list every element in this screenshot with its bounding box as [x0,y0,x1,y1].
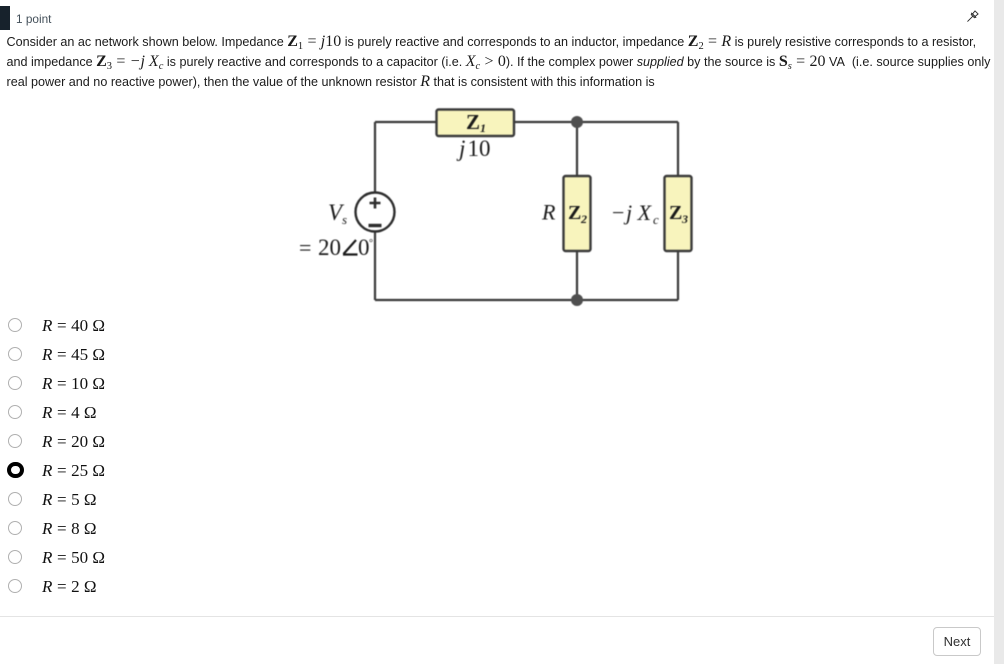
svg-text:Z: Z [568,202,581,224]
svg-text:R: R [541,200,556,225]
options [0,311,1,340]
svg-text:°: ° [369,238,373,249]
node bottom junction [571,294,583,306]
svg-text:Z: Z [669,202,682,224]
wire left vertical bottom segment [374,232,376,301]
wire bottom rail [375,299,678,301]
svg-text:3: 3 [681,212,688,226]
wire top rail right [514,121,678,123]
voltage source Vs circle with plus minus [356,193,395,232]
label Vs [328,200,347,227]
node top junction [571,116,583,128]
svg-text:2: 2 [580,212,587,226]
svg-text:10: 10 [468,136,491,161]
svg-text:20: 20 [318,235,341,260]
impedance Z2 box [564,176,591,251]
svg-text:−: − [612,200,624,225]
svg-text:=: = [299,235,311,260]
svg-text:j X: j X [623,200,653,225]
wire Z2 top [576,122,578,176]
wire right vertical to Z3 [677,122,679,176]
svg-text:s: s [342,212,347,227]
label j10 [456,136,491,161]
label = 20 angle 0 deg [299,235,373,260]
svg-text:0: 0 [358,235,370,260]
svg-text:c: c [653,212,659,227]
impedance Z1 box [437,110,515,137]
svg-text:1: 1 [480,121,486,135]
impedance Z3 box [665,176,692,251]
wire top rail left [375,121,436,123]
wire Z3 bottom [677,251,679,300]
svg-text:j: j [456,136,465,161]
wire Z2 bottom [576,251,578,300]
circuit schematic [280,95,720,320]
svg-text:Z: Z [466,110,480,134]
label -jXc [612,200,659,227]
wire left vertical top segment [374,122,376,193]
